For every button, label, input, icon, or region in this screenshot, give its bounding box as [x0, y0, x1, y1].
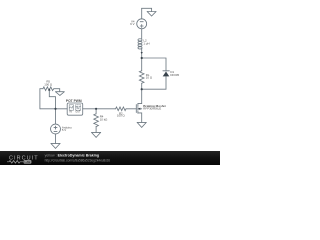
- diode D1 triangle: [163, 72, 170, 77]
- voltage source Arduino 5V: [51, 124, 61, 134]
- svg-text:http://circuitlab.com/c/8a586a: http://circuitlab.com/c/8a586a523eg2k4xu…: [45, 158, 111, 162]
- wire box output to junction: [83, 108, 96, 110]
- svg-text:10 Ω: 10 Ω: [146, 76, 153, 80]
- inductor L2: [138, 39, 142, 49]
- wire R2 to junction: [96, 108, 116, 110]
- svg-text:RFP30N06LE: RFP30N06LE: [143, 107, 161, 111]
- potentiometer R5 body: [43, 87, 54, 91]
- box inner waveform IN: [69, 105, 73, 110]
- svg-text:1 μH: 1 μH: [143, 41, 149, 45]
- transistor Q1 NMOS channel: [136, 104, 141, 123]
- svg-text:yellow : ElectroDynamic Brakin: yellow : ElectroDynamic Braking: [45, 153, 100, 157]
- svg-text:DF005: DF005: [170, 73, 179, 77]
- svg-text:OUT: OUT: [75, 110, 81, 113]
- ground (Arduino): [51, 143, 60, 148]
- subcircuit box POT PWM: [67, 103, 83, 115]
- resistor R4: [94, 114, 99, 127]
- svg-text:LAB: LAB: [25, 160, 31, 164]
- svg-text:100 Ω: 100 Ω: [44, 82, 53, 86]
- wire V4 bottom to inductor: [141, 29, 143, 39]
- voltage source V4: [137, 19, 147, 29]
- svg-text:100 Ω: 100 Ω: [117, 114, 126, 118]
- diode D1 cathode bar: [163, 70, 169, 72]
- transistor arrow: [138, 108, 140, 110]
- logo zigzag: [7, 161, 23, 164]
- wire RL to bottom junction: [141, 83, 143, 89]
- node junction gate rail: [95, 108, 97, 110]
- node junction below inductor: [141, 57, 143, 59]
- wire junction down to R4: [95, 109, 97, 114]
- ground (pot): [56, 92, 65, 96]
- node junction wiper rail: [54, 108, 56, 110]
- footer bar: [0, 151, 220, 165]
- ground (R4): [92, 132, 101, 137]
- wire drain: [138, 89, 142, 103]
- wire pot right lead to ground: [54, 89, 60, 92]
- wire inductor to junction: [141, 48, 143, 58]
- box inner waveform OUT: [76, 105, 81, 110]
- svg-text:5 V: 5 V: [62, 128, 66, 132]
- wire junction to Arduino source: [55, 109, 57, 124]
- wire R4 to ground: [95, 127, 97, 133]
- wire junction to diode top: [142, 58, 166, 71]
- svg-text:9 V: 9 V: [130, 22, 134, 26]
- ground (mosfet source): [137, 122, 146, 127]
- resistor R2: [116, 107, 126, 111]
- svg-text:IN: IN: [69, 110, 72, 113]
- node junction above drain: [141, 88, 143, 90]
- wire junction down to RL: [141, 58, 143, 71]
- current arrow below L2: [141, 52, 143, 54]
- potentiometer wiper arrow: [48, 88, 50, 90]
- svg-text:POT PWM: POT PWM: [66, 99, 82, 103]
- wire gate lead: [126, 108, 136, 110]
- resistor RL: [139, 71, 144, 84]
- svg-text:10 kΩ: 10 kΩ: [100, 117, 108, 121]
- logo LAB box: [24, 160, 32, 164]
- wire V4 plus to top corner: [141, 8, 143, 19]
- wire pot left branch: [40, 89, 43, 109]
- wire Arduino source to ground: [55, 134, 57, 143]
- wire pot wiper to main wire: [49, 91, 55, 109]
- ground (top right, minus rail): [147, 12, 156, 17]
- wire diode bottom to junction: [142, 76, 166, 89]
- wire top horizontal to ground flag: [142, 8, 152, 11]
- wire main horizontal to box input: [40, 108, 67, 110]
